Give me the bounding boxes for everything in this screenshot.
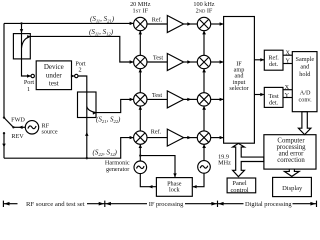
svg-text:1ST IF: 1ST IF (133, 7, 149, 14)
svg-text:FWD: FWD (11, 116, 25, 123)
amplifier A3 (147, 91, 197, 108)
wire: port 2 to coupler-2 main line (78, 76, 87, 158)
svg-text:under: under (46, 71, 63, 79)
svg-text:(S22, S12): (S22, S12) (93, 149, 118, 157)
svg-text:Y: Y (285, 92, 290, 99)
node: FWD contact (3, 116, 5, 118)
wire: bottom line to mixer M4 riser (4, 138, 133, 159)
amplifier A2 (147, 54, 197, 71)
svg-text:(S11, S21): (S11, S21) (90, 15, 115, 23)
mixer M8 (197, 131, 210, 144)
sample and hold / A/D converter box (292, 52, 317, 112)
dimension line: IF processing (105, 201, 218, 209)
panel control box (227, 178, 256, 193)
hollow arrow: computer to display (284, 169, 299, 176)
computer processing box (264, 135, 316, 169)
svg-text:lock: lock (169, 187, 181, 194)
svg-text:Ref.: Ref. (151, 129, 162, 136)
wire: REV vertical down to bottom line (3, 133, 5, 158)
svg-text:and: and (300, 64, 310, 71)
hollow arrow: A/D to computer (298, 112, 311, 135)
svg-text:correction: correction (277, 157, 305, 164)
svg-text:test: test (49, 80, 59, 88)
wire: mixer M7 to IF box (211, 98, 224, 101)
svg-text:Digital processing: Digital processing (245, 201, 292, 208)
RF source (25, 121, 38, 134)
node: harmonic generator tap junction (139, 154, 141, 156)
svg-text:det.: det. (269, 61, 279, 68)
wire: Test det X output (283, 89, 292, 91)
Ref. det. box (264, 50, 283, 70)
wire: Ref det X output (283, 54, 292, 56)
wire: coupler-2 coupled arm to mixer M3 (96, 99, 133, 112)
svg-text:(S11, S12): (S11, S12) (89, 28, 114, 36)
svg-text:Display: Display (282, 185, 303, 192)
switch arm FWD/REV (4, 118, 13, 128)
wire: RF source to switch pivot (13, 126, 25, 128)
wire: phase lock output to harmonic generator (140, 174, 156, 187)
port 2 connector (72, 75, 75, 77)
mixer M3 (134, 93, 147, 106)
node: REV contact (3, 132, 5, 134)
svg-text:1: 1 (27, 86, 30, 93)
svg-text:Test: Test (152, 92, 163, 99)
node: junction bottom line / coupler-2 feed (86, 157, 88, 159)
wire: LO column 1 segments with up arrows (139, 31, 142, 162)
wire: Test det Y output (283, 97, 292, 99)
svg-text:A/D: A/D (300, 89, 311, 96)
phase lock box (156, 178, 192, 197)
local oscillator (198, 161, 211, 174)
svg-text:Port: Port (24, 79, 35, 86)
Test det. box (264, 87, 283, 107)
dimension line: RF source and test set (3, 201, 104, 209)
wire: top line from left vertical to mixer M1 (4, 22, 133, 24)
harmonic generator (134, 161, 147, 174)
wire: left vertical (FWD feed) (3, 23, 5, 117)
svg-text:2ND IF: 2ND IF (196, 7, 213, 14)
svg-text:Device: Device (44, 63, 64, 71)
mixer M7 (197, 93, 210, 106)
coupler CP2 (directional coupler) (78, 92, 97, 118)
svg-text:X: X (285, 49, 290, 56)
IF amp and input selector box (224, 17, 255, 144)
mixer M6 (197, 55, 210, 68)
amplifier A4 (147, 129, 197, 146)
port 1 connector (31, 74, 34, 77)
hollow bus arrow: IF box / panel control / computer (233, 143, 264, 176)
wire: Ref det Y output (283, 63, 292, 65)
svg-text:REV: REV (11, 133, 24, 140)
svg-text:(S21, S22): (S21, S22) (96, 116, 121, 124)
svg-text:X: X (285, 84, 290, 91)
svg-text:source: source (42, 129, 58, 136)
mixer M2 (134, 55, 147, 68)
wire: coupler-1 feed down to Port 1 (22, 23, 31, 76)
wire: mixer M5 to IF box (211, 22, 224, 25)
svg-text:det.: det. (269, 99, 279, 106)
svg-text:Test: Test (153, 54, 164, 61)
svg-text:selector: selector (229, 85, 248, 92)
wire: LO column 2 segments with up arrows (202, 31, 206, 161)
wire: IF box to Ref. det. (254, 58, 264, 61)
node: junction top line / coupler-1 (20, 22, 22, 24)
svg-text:Ref.: Ref. (152, 16, 163, 23)
svg-text:hold: hold (299, 71, 311, 78)
wire: IF box to Test det. (254, 93, 264, 96)
svg-text:2: 2 (78, 66, 81, 73)
mixer M1 (134, 17, 147, 30)
coupler CP1 (directional coupler) (13, 34, 30, 59)
svg-text:Y: Y (285, 58, 290, 65)
device under test DUT (36, 61, 71, 90)
svg-text:MHz: MHz (218, 159, 231, 166)
wire: mixer M8 to IF box (211, 136, 224, 139)
display box (273, 177, 312, 196)
svg-text:Sample: Sample (296, 56, 315, 63)
dimension line: Digital processing (218, 201, 317, 209)
wire: tap from harmonic generator to phase lock top (140, 156, 175, 178)
svg-text:generator: generator (106, 166, 129, 173)
amplifier A1 (147, 16, 197, 33)
svg-text:conv.: conv. (299, 96, 313, 103)
wire: local oscillator to phase lock (193, 173, 204, 186)
svg-text:IF processing: IF processing (149, 201, 184, 208)
wire: mixer M6 to IF box (211, 60, 224, 63)
mixer M5 (197, 17, 210, 30)
svg-text:control: control (230, 187, 248, 194)
svg-text:RF source and test set: RF source and test set (26, 201, 85, 208)
wire: coupler-1 coupled arm to mixer M2 (30, 36, 133, 62)
mixer M4 (134, 131, 147, 144)
